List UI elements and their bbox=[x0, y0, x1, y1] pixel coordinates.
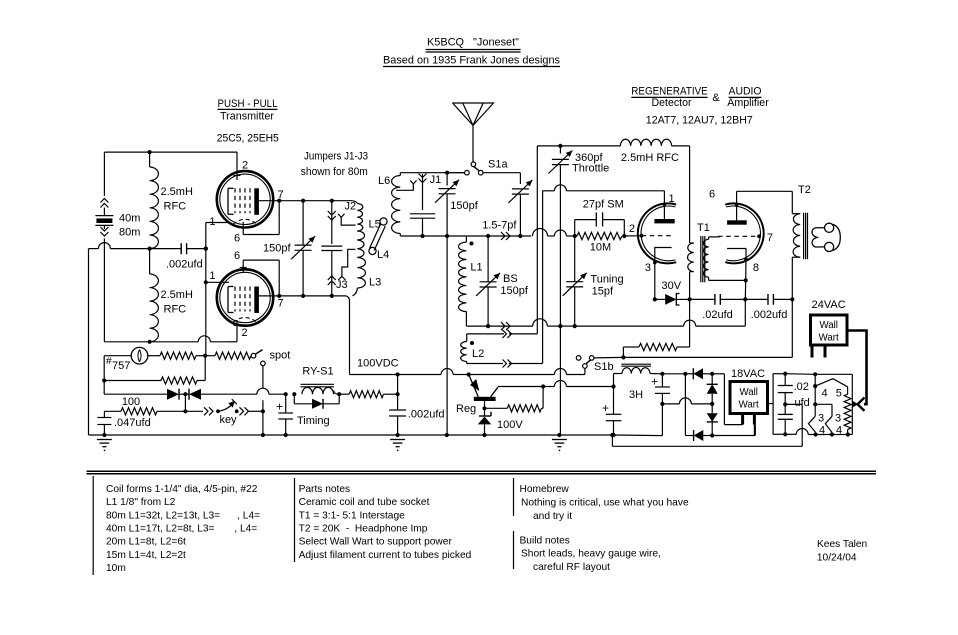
plate U1b bbox=[727, 191, 747, 224]
label L2 bbox=[472, 348, 484, 360]
diode D bridge lower mid bbox=[707, 404, 718, 438]
transformer T1 primary bbox=[687, 243, 693, 272]
svg-text:Tuning: Tuning bbox=[590, 273, 623, 285]
resistor R 100 bbox=[104, 408, 185, 415]
svg-text:and try it: and try it bbox=[533, 511, 572, 522]
svg-text:Based on 1935 Frank Jones desi: Based on 1935 Frank Jones designs bbox=[383, 55, 560, 67]
node RFC mid junction bbox=[148, 247, 152, 251]
node 10M left bbox=[573, 234, 577, 238]
label V2 pin2 bbox=[242, 327, 248, 339]
wire fil top wire bbox=[773, 372, 852, 377]
inductor RFC det 2.5mH bbox=[620, 139, 689, 146]
label U1b pin7 bbox=[767, 232, 773, 244]
label .002ufd psu bbox=[408, 409, 445, 421]
wire diode row left bbox=[104, 393, 167, 395]
wire hop row over rail bbox=[98, 243, 110, 249]
resistor R spot bbox=[205, 352, 251, 359]
node J2 top bbox=[330, 199, 334, 203]
svg-text:8: 8 bbox=[753, 262, 759, 274]
label V1 pin2 bbox=[242, 160, 248, 172]
label 27pf SM bbox=[583, 198, 624, 210]
resistor R relay bbox=[349, 391, 397, 398]
label V2 pin7 bbox=[278, 298, 284, 310]
cathode U1b bbox=[727, 249, 748, 281]
wire bridge top right bbox=[712, 374, 724, 425]
wire fil mid to riser bbox=[785, 404, 802, 446]
capacitor C .002ufd out bbox=[745, 294, 792, 305]
wire pin1 plate wire bbox=[543, 185, 665, 191]
svg-text:+: + bbox=[651, 375, 658, 389]
svg-text:Throttle: Throttle bbox=[572, 162, 609, 174]
label L5 bbox=[369, 219, 381, 231]
label BS 150pf bbox=[500, 273, 528, 297]
label V2 pin1 bbox=[209, 270, 215, 282]
label ampersand bbox=[712, 92, 720, 104]
signature Kees Talen bbox=[817, 539, 867, 563]
svg-text:3: 3 bbox=[645, 262, 651, 274]
label U1b pin8 bbox=[753, 262, 759, 274]
svg-text:+: + bbox=[276, 400, 283, 414]
svg-text:100: 100 bbox=[122, 396, 140, 408]
pin 1 V1 lead bbox=[206, 222, 229, 224]
grid U1a dashed bbox=[640, 234, 674, 238]
resistor R filament bbox=[844, 394, 851, 434]
wire L2 bottom row bbox=[467, 360, 543, 368]
svg-text:Homebrew: Homebrew bbox=[520, 484, 570, 495]
wire riser plate-L2bottom bbox=[542, 191, 544, 364]
wire 30V to node bbox=[676, 297, 691, 301]
wire bridge left drop bbox=[684, 374, 686, 436]
svg-text:S1a: S1a bbox=[488, 159, 508, 171]
svg-text:Jumpers J1-J3: Jumpers J1-J3 bbox=[304, 151, 368, 163]
node grid-leak row left bbox=[102, 378, 106, 382]
label 3H bbox=[629, 389, 643, 401]
switch key bbox=[204, 399, 265, 415]
svg-text:Adjust filament current to tub: Adjust filament current to tubes picked bbox=[299, 550, 472, 561]
wire det top rail bbox=[537, 144, 620, 148]
svg-text:Detector: Detector bbox=[652, 97, 692, 109]
node pin7 junction C tank bbox=[301, 199, 305, 203]
subtitle Based on 1935 Frank Jones designs bbox=[383, 55, 560, 67]
svg-text:Wall: Wall bbox=[819, 320, 837, 331]
svg-text:4: 4 bbox=[821, 388, 827, 400]
label 3 left bbox=[818, 413, 824, 425]
node plate DC row left bbox=[655, 298, 666, 300]
svg-text:40m L1=17t, L2=8t, L3= ,: 40m L1=17t, L2=8t, L3= , L4= bbox=[106, 524, 257, 535]
wire riser RFC-L2top bbox=[536, 146, 538, 334]
svg-text:+: + bbox=[602, 401, 609, 415]
ground G3 bbox=[552, 440, 567, 452]
svg-text:Short leads, heavy gauge wire,: Short leads, heavy gauge wire, bbox=[521, 549, 661, 560]
wire T1 sec top to grid bbox=[709, 237, 720, 239]
wire bank bottom to 100VDC row bbox=[346, 288, 357, 375]
pin 7 V1 wire bbox=[258, 200, 303, 202]
node relay loop right bbox=[337, 392, 341, 396]
svg-text:30V: 30V bbox=[662, 280, 682, 292]
svg-text:10/24/04: 10/24/04 bbox=[817, 552, 857, 563]
svg-text:REGENERATIVE: REGENERATIVE bbox=[631, 86, 708, 98]
svg-text:7: 7 bbox=[278, 298, 284, 310]
pin 18VAC right bbox=[753, 414, 756, 436]
label .002ufd out bbox=[751, 309, 788, 321]
svg-text:Nothing is critical, use what: Nothing is critical, use what you have bbox=[521, 498, 689, 509]
switch spot bbox=[251, 350, 265, 366]
svg-text:RFC: RFC bbox=[164, 201, 187, 213]
wire 18VAC return bbox=[612, 435, 802, 446]
wire row to left rail2 bbox=[89, 248, 150, 250]
capacitor C L6 fixed bbox=[410, 214, 435, 236]
label 100VDC bbox=[357, 358, 399, 370]
svg-text:27pf SM: 27pf SM bbox=[583, 198, 624, 210]
svg-text:25C5, 25EH5: 25C5, 25EH5 bbox=[217, 133, 279, 145]
label U1a pin2 bbox=[629, 223, 635, 235]
pin 18VAC left bbox=[724, 414, 742, 425]
tube V1 25C5 (top) bbox=[217, 171, 273, 227]
wire S1a right lead bbox=[483, 173, 520, 184]
wire throttle ground line bbox=[559, 326, 561, 435]
wire lamp left bbox=[104, 356, 131, 395]
svg-text:2.5mH RFC: 2.5mH RFC bbox=[621, 152, 679, 164]
wire relay diode loop bbox=[292, 392, 339, 409]
capacitor C 360pf throttle variable bbox=[548, 146, 572, 326]
svg-text:150pf: 150pf bbox=[500, 285, 528, 297]
label L4 bbox=[377, 249, 389, 261]
label key bbox=[219, 414, 237, 426]
svg-text:1: 1 bbox=[209, 216, 215, 228]
label S1a bbox=[488, 159, 508, 171]
ground G1 bbox=[97, 440, 112, 452]
polarity dot L1 bbox=[470, 242, 474, 246]
svg-text:Reg: Reg bbox=[456, 403, 476, 415]
diode D bridge top bbox=[685, 368, 714, 379]
svg-text:Coil forms 1-1/4" dia, 4/5-pin: Coil forms 1-1/4" dia, 4/5-pin, #22 bbox=[106, 484, 258, 495]
capacitor C 1.5-7pf variable bbox=[508, 180, 532, 236]
node diode pair mid bbox=[179, 392, 187, 396]
label Timing bbox=[297, 415, 330, 427]
svg-text:24VAC: 24VAC bbox=[812, 299, 846, 311]
capacitor C .047ufd bbox=[97, 411, 111, 437]
label 4 hat bbox=[821, 388, 827, 400]
wire fil bottom bus bbox=[773, 429, 852, 437]
label spot bbox=[270, 350, 291, 362]
antenna bbox=[453, 103, 494, 162]
label 4 right bbox=[836, 425, 842, 437]
chevron 3-4 right bbox=[815, 404, 832, 434]
pin 2 V1 stub bbox=[234, 152, 241, 180]
label 100 bbox=[122, 396, 140, 408]
pin 7 V2 wire bbox=[258, 295, 303, 297]
wire L6 bottom row bbox=[400, 235, 447, 237]
svg-text:PUSH - PULL: PUSH - PULL bbox=[218, 98, 278, 110]
inductor L3 bbox=[357, 258, 365, 289]
wire fil vert mid bbox=[813, 374, 817, 406]
divider col3b bbox=[513, 531, 515, 569]
svg-text:Parts notes: Parts notes bbox=[299, 484, 351, 495]
svg-text:.047ufd: .047ufd bbox=[114, 417, 151, 429]
wire bridge bottom right bbox=[712, 425, 755, 436]
label 18VAC bbox=[731, 368, 765, 380]
ground G2 bbox=[390, 440, 405, 452]
pin 6 V1 jumper to pin7 bbox=[240, 199, 282, 235]
wire cathode junction down bbox=[744, 280, 746, 299]
wire grid bus vertical bbox=[204, 223, 208, 356]
svg-text:20m L1=8t, L2=6t: 20m L1=8t, L2=6t bbox=[106, 537, 186, 548]
capacitor C tuning 15pf variable bbox=[563, 236, 587, 326]
label timing plus bbox=[276, 400, 283, 414]
wire L1 bottom row bbox=[466, 299, 745, 330]
svg-text:150pf: 150pf bbox=[450, 200, 478, 212]
relay RY-S1 bbox=[301, 366, 339, 395]
node spot row junction bbox=[203, 354, 207, 358]
label 150pf antenna bbox=[450, 200, 478, 212]
label det RFC bbox=[621, 152, 679, 164]
wire 24VAC feed bbox=[847, 331, 867, 405]
svg-text:key: key bbox=[219, 414, 237, 426]
svg-text:2.5mH: 2.5mH bbox=[161, 289, 193, 301]
separator double rule bbox=[87, 471, 877, 474]
wire left rail2 down bbox=[88, 249, 90, 435]
svg-text:2: 2 bbox=[242, 160, 248, 172]
svg-text:40m: 40m bbox=[119, 213, 140, 225]
label 360pf Throttle bbox=[572, 152, 609, 174]
wire antenna line down bbox=[446, 236, 448, 435]
svg-text:3: 3 bbox=[818, 413, 824, 425]
node T2 return junction bbox=[790, 297, 794, 301]
label U1a pin3 bbox=[645, 262, 651, 274]
capacitor C fil .02 lower bbox=[778, 404, 793, 436]
wire L6 top row bbox=[400, 172, 464, 174]
connector filament female bbox=[858, 398, 865, 411]
svg-text:spot: spot bbox=[270, 350, 291, 362]
svg-text:RFC: RFC bbox=[164, 304, 187, 316]
wire base down bbox=[482, 401, 486, 410]
label Reg bbox=[456, 403, 476, 415]
node cap junction bbox=[743, 297, 747, 301]
svg-text:3H: 3H bbox=[629, 389, 643, 401]
wire S1b bottom to 100VDC bbox=[584, 368, 586, 374]
transistor Q Reg bbox=[469, 375, 543, 402]
svg-text:1.5-7pf: 1.5-7pf bbox=[482, 220, 517, 232]
label V1 pin6 bbox=[234, 233, 240, 245]
svg-text:Wall: Wall bbox=[739, 387, 757, 398]
wire T1 primary top bbox=[689, 146, 691, 243]
svg-text:7: 7 bbox=[767, 232, 773, 244]
wire L2 top row bbox=[467, 330, 538, 338]
node L6 cap bottom bbox=[420, 234, 424, 238]
svg-text:Select Wall Wart to support po: Select Wall Wart to support power bbox=[299, 537, 453, 548]
svg-text:6: 6 bbox=[234, 233, 240, 245]
node 100VDC tap bbox=[396, 392, 400, 396]
svg-text:10M: 10M bbox=[590, 242, 611, 254]
wire S1b right row bbox=[594, 355, 792, 359]
label #757 bbox=[106, 356, 130, 372]
svg-text:Timing: Timing bbox=[297, 415, 330, 427]
node grid row left bbox=[445, 234, 449, 238]
label 3 right bbox=[835, 413, 841, 425]
switch S1b bbox=[576, 356, 594, 369]
pin 24VAC left bbox=[811, 345, 814, 358]
capacitor C .002ufd psu bbox=[389, 375, 406, 438]
chevron 3-4 left bbox=[808, 404, 815, 434]
svg-text:K5BCQ "Joneset": K5BCQ "Joneset" bbox=[427, 36, 519, 48]
inductor L4 bbox=[357, 240, 364, 258]
wire grid row bbox=[447, 229, 577, 240]
svg-text:2: 2 bbox=[242, 327, 248, 339]
label 5 hat bbox=[836, 388, 842, 400]
node RFC junction top bbox=[148, 150, 152, 154]
svg-text:10m: 10m bbox=[106, 563, 126, 574]
label L6 bbox=[378, 175, 390, 187]
svg-text:15pf: 15pf bbox=[592, 286, 614, 298]
wire choke left down bbox=[613, 374, 615, 387]
resistor R emitter feedback bbox=[485, 384, 546, 412]
label tubes 25C5 25EH5 bbox=[217, 133, 279, 145]
divider col3a bbox=[513, 478, 515, 516]
node tank cap bottom bbox=[301, 294, 305, 298]
svg-text:6: 6 bbox=[234, 250, 240, 262]
zener D 100V bbox=[478, 408, 492, 437]
capacitor C filter2 electrolytic bbox=[655, 374, 670, 406]
label J1 bbox=[430, 174, 442, 186]
header REGENERATIVE Detector bbox=[631, 86, 708, 110]
label .002ufd TX bbox=[166, 259, 203, 271]
jumper J3 bbox=[328, 249, 356, 296]
label U1b pin6 bbox=[709, 189, 715, 201]
wire S1a left lead bbox=[444, 171, 465, 175]
label J3 bbox=[336, 279, 348, 291]
lamp #757 bbox=[131, 347, 148, 364]
svg-text:12AT7, 12AU7, 12BH7: 12AT7, 12AU7, 12BH7 bbox=[646, 115, 753, 127]
wire key to bus bbox=[261, 411, 265, 437]
wire bridge mid row bbox=[662, 398, 714, 406]
jumper link L5-L4 bbox=[369, 218, 387, 255]
svg-text:L3: L3 bbox=[369, 277, 381, 289]
wire bank top corner bbox=[353, 201, 358, 204]
resistor R bleed bbox=[623, 299, 689, 357]
label 150pf TX bbox=[263, 243, 291, 255]
svg-text:Wart: Wart bbox=[819, 333, 839, 344]
tube U1a 12AT7 half bbox=[638, 203, 676, 263]
tube V2 25EH5 (bottom) bbox=[217, 269, 273, 325]
label RFC2 2.5mH RFC bbox=[161, 289, 193, 316]
label 24VAC bbox=[812, 299, 846, 311]
svg-text:J1: J1 bbox=[430, 174, 442, 186]
svg-text:L1 1/8" from L2: L1 1/8" from L2 bbox=[106, 497, 176, 508]
core T2 bbox=[804, 213, 808, 260]
wire T1 primary bottom bbox=[689, 272, 691, 300]
svg-text:J2: J2 bbox=[345, 201, 357, 213]
node 10M right bbox=[622, 234, 626, 238]
pin 2 V2 stub bbox=[229, 320, 241, 342]
cathode U1a bbox=[653, 248, 672, 300]
inductor L5 bbox=[357, 204, 364, 241]
svg-text:100V: 100V bbox=[497, 419, 523, 431]
header AUDIO Amplifier bbox=[727, 86, 769, 110]
label 1.5-7pf bbox=[482, 220, 517, 232]
core T1 bbox=[701, 236, 705, 282]
panel left border bbox=[92, 476, 94, 575]
label plus filter1 bbox=[602, 401, 609, 415]
svg-text:S1b: S1b bbox=[594, 361, 614, 373]
label T1 bbox=[697, 222, 710, 234]
label 30V bbox=[662, 280, 682, 292]
label S1b bbox=[594, 361, 614, 373]
label 40m 80m bbox=[119, 213, 140, 239]
wire hat 4-5 bbox=[815, 379, 847, 395]
tube U1b 12AT7 half bbox=[725, 203, 763, 263]
svg-text:2: 2 bbox=[629, 223, 635, 235]
svg-text:.002ufd: .002ufd bbox=[166, 259, 203, 271]
label L1 bbox=[470, 261, 482, 273]
wire rail below crystal bbox=[103, 244, 105, 342]
label tubes 12AT7 12AU7 12BH7 bbox=[646, 115, 753, 127]
svg-text:Transmitter: Transmitter bbox=[220, 111, 274, 123]
node 1.5-7pf bottom bbox=[518, 234, 522, 238]
wire diode row right bbox=[201, 388, 286, 394]
svg-text:L1: L1 bbox=[470, 261, 482, 273]
svg-text:80m: 80m bbox=[119, 227, 140, 239]
transformer T2 primary bbox=[792, 191, 800, 299]
pin 6 V2 jumper to pin7 bbox=[240, 260, 282, 298]
wire fil right vert bbox=[851, 374, 853, 434]
transformer T2 secondary bbox=[812, 228, 824, 247]
diode D 30V bbox=[653, 294, 680, 306]
svg-text:T1 = 3:1- 5:1 Interstage: T1 = 3:1- 5:1 Interstage bbox=[299, 510, 406, 521]
svg-text:Kees Talen: Kees Talen bbox=[817, 539, 867, 550]
capacitor C 27pf SM bbox=[575, 212, 625, 236]
crystal Y1 40m/80m bbox=[95, 199, 113, 244]
svg-text:Wart: Wart bbox=[739, 400, 759, 411]
svg-text:.02: .02 bbox=[794, 381, 809, 393]
svg-text:5: 5 bbox=[836, 388, 842, 400]
notes column build notes bbox=[520, 536, 661, 573]
svg-text:.002ufd: .002ufd bbox=[408, 409, 445, 421]
label .02 ufd fil bbox=[794, 381, 810, 409]
label T2 bbox=[798, 184, 811, 196]
wire main ground bus bbox=[89, 433, 663, 437]
svg-text:4: 4 bbox=[819, 425, 825, 437]
label 10M bbox=[590, 242, 611, 254]
connector filament male bbox=[852, 401, 858, 408]
node J3 bottom bbox=[330, 294, 334, 298]
divider col2 bbox=[294, 478, 296, 562]
svg-text:.002ufd: .002ufd bbox=[751, 309, 788, 321]
svg-text:4: 4 bbox=[836, 425, 842, 437]
notes column parts notes bbox=[299, 484, 472, 561]
svg-text:careful RF layout: careful RF layout bbox=[533, 562, 610, 573]
resistor R 10M bbox=[577, 232, 622, 239]
polarity dot L2 bbox=[470, 341, 474, 345]
label 4 left bbox=[819, 425, 825, 437]
label V1 pin7 bbox=[278, 189, 284, 201]
inductor L6 bbox=[392, 173, 401, 236]
capacitor C timing bbox=[278, 392, 293, 437]
wire bridge top row bbox=[662, 372, 687, 376]
wire 18VAC out stub bbox=[768, 403, 774, 405]
wire filter2 to bus bbox=[661, 404, 663, 436]
node choke right bbox=[660, 372, 664, 376]
jumper J2 bbox=[328, 201, 356, 244]
wire spot line down bbox=[262, 366, 264, 412]
wire emitter row left part bbox=[543, 381, 616, 389]
svg-text:J3: J3 bbox=[336, 279, 348, 291]
wire plate U1b to T2 bbox=[737, 190, 793, 192]
notes column coil forms bbox=[106, 484, 260, 574]
svg-text:T2: T2 bbox=[798, 184, 811, 196]
svg-text:shown for 80m: shown for 80m bbox=[301, 166, 368, 178]
svg-text:Build notes: Build notes bbox=[520, 536, 570, 547]
plate U1a bbox=[654, 191, 674, 224]
